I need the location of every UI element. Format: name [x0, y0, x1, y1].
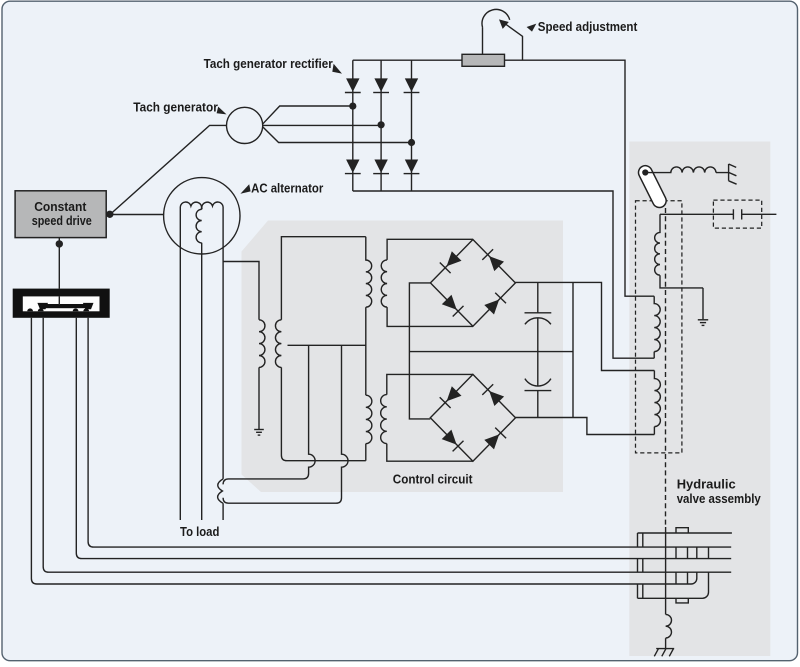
control circuit shaded region [242, 221, 564, 493]
dashed mechanical link line [665, 208, 667, 527]
potentiometer wiper arc [482, 9, 510, 54]
wire bus line 3 [43, 318, 731, 572]
transformer T2 primary winding [366, 395, 372, 443]
wire tach generator phase B [263, 124, 381, 126]
wire alternator phase 2 to load [201, 243, 203, 520]
label AC alternator [251, 180, 323, 195]
rectifier column 1 wire [352, 60, 354, 191]
torque motor frame top line [638, 532, 732, 534]
wire tap drop 2 with crossover hop [223, 345, 348, 503]
flapper lever arm [636, 163, 668, 209]
junction node phase C [408, 139, 415, 146]
lever pivot wire to spring [645, 167, 728, 173]
wire tap drop 1 with crossover hop [223, 345, 315, 484]
label control circuit [393, 471, 473, 486]
brush block armature bar [45, 304, 86, 308]
label pointer tach generator rectifier [332, 64, 342, 74]
wire bridge B1 left to bridge B2 left [409, 283, 430, 419]
bridge B2 diode bottom-left [442, 430, 464, 452]
armature centre line [665, 527, 667, 614]
wire tach rectifier bottom rail down to coil L2 bottom [353, 191, 654, 358]
wire centre rail between bridges [409, 351, 573, 353]
capacitor C2 bottom lead [537, 391, 539, 418]
torque motor bottom line with corner [638, 572, 709, 598]
transformer T1 primary winding [366, 237, 372, 307]
valve coil L2 winding [654, 296, 660, 358]
dashed enclosure of valve solenoids [636, 201, 682, 453]
label pointer tach generator [217, 107, 227, 115]
svg-text:Control circuit: Control circuit [393, 471, 473, 486]
svg-text:Speed adjustment: Speed adjustment [538, 19, 638, 34]
transformer T0 secondary winding [275, 320, 281, 368]
torque motor bottom bump [676, 598, 688, 603]
diode CR5 (bottom row) [373, 160, 389, 174]
wire T1 secondary bottom to bridge B1 [387, 307, 473, 326]
rectifier column 2 wire [380, 60, 382, 191]
brush block left brush [37, 303, 48, 309]
armature coil [666, 614, 672, 638]
transformer T1 secondary winding [381, 260, 387, 307]
transformer T0 primary winding [259, 320, 265, 368]
svg-text:AC alternator: AC alternator [251, 180, 323, 195]
capacitor C1 top lead [537, 282, 539, 312]
chassis ground at armature [654, 649, 674, 657]
svg-text:Tach generator rectifier: Tach generator rectifier [204, 56, 333, 71]
bridge B2 diode bottom-right [484, 428, 506, 450]
capacitor C2 plates [525, 379, 552, 391]
wire T1 primary to T2 primary [365, 307, 367, 395]
svg-text:speed drive: speed drive [32, 213, 92, 228]
wire T0 secondary top to T1 primary (box top) [281, 237, 365, 320]
bridge B1 diode bottom-right [484, 293, 506, 315]
potentiometer wiper arm with arrow [499, 19, 523, 60]
wire T1 secondary top to bridge B1 [387, 239, 473, 260]
brush block inner window [23, 296, 100, 311]
wire coil L1 to ground [702, 288, 704, 319]
wire T0 secondary centre tap [288, 344, 366, 346]
wire bus line 1 (brush to torque motor top) [88, 318, 731, 547]
valve coil L3 winding [654, 371, 660, 435]
bridge rectifier B2 diamond [430, 374, 515, 461]
AC alternator M1 circle [164, 178, 240, 254]
label speed adjustment [538, 19, 638, 34]
bridge B1 diode bottom-left [442, 295, 464, 317]
wire bridge B2 output rail [516, 418, 655, 435]
capacitor C1 to C2 lead [537, 318, 539, 386]
svg-text:Constant: Constant [34, 199, 87, 214]
label tach generator rectifier [204, 56, 333, 71]
wire T0 primary to ground [258, 367, 260, 429]
valve coil L1 winding [655, 214, 703, 288]
label pointer speed adjustment [527, 24, 537, 32]
rectifier column 3 wire [411, 60, 413, 191]
wire T2 primary bottom [365, 444, 367, 461]
wire tach generator phase C [263, 127, 412, 143]
wire armature to ground [665, 638, 667, 648]
spring anchor symbol [729, 164, 737, 184]
brush block outer case [13, 289, 110, 318]
wire constant speed drive to brush block [58, 238, 60, 289]
wire into brush block [58, 296, 60, 305]
ground at coil L1 [698, 320, 708, 326]
label to load [180, 524, 219, 539]
brush block right brush [83, 303, 94, 309]
wire constant speed drive to AC alternator [106, 214, 164, 216]
hydraulic valve assembly shaded region [629, 142, 770, 657]
junction node at constant speed drive output [106, 211, 113, 218]
wire T2 secondary bottom to bridge B2 [387, 444, 473, 462]
brush block contact bumps [27, 308, 89, 311]
wire valve coil L1 through feedback capacitor C3 [660, 213, 776, 215]
torque motor left bracket 2 [638, 559, 643, 573]
svg-text:Hydraulic: Hydraulic [677, 476, 736, 491]
transformer T2 secondary winding [381, 395, 387, 444]
wire T2 secondary top to bridge B2 [387, 374, 473, 394]
svg-text:To load: To load [180, 524, 219, 539]
diode CR6 (bottom row) [404, 160, 420, 174]
junction node below constant speed drive [56, 240, 63, 247]
capacitor C1 plates [525, 313, 552, 325]
bridge B2 diode top-right [482, 384, 504, 406]
wire tach generator to constant speed drive [110, 125, 227, 214]
diode CR2 (top row) [373, 78, 389, 92]
torque motor left bracket 3 [638, 584, 643, 598]
wire T0 secondary bottom to T2 primary bottom [281, 367, 365, 460]
svg-text:Tach generator: Tach generator [133, 100, 218, 115]
label tach generator [133, 100, 218, 115]
potentiometer R1 speed adjustment [462, 54, 505, 66]
wire bus line 4 with hook to torque motor [31, 318, 696, 584]
torque motor winding ticks row 2 [676, 572, 688, 584]
label hydraulic valve assembly [677, 476, 762, 506]
wire bridge B1 output rail to valve coil L3 top [515, 282, 654, 370]
junction node phase B [378, 121, 385, 128]
constant speed drive box [15, 191, 106, 238]
diode CR3 (top row) [404, 78, 420, 92]
diode CR4 (bottom row) [345, 160, 361, 174]
label pointer AC alternator [240, 184, 250, 194]
dashed enclosure of capacitor C3 [713, 200, 761, 228]
tach generator G1 circle [227, 107, 263, 143]
bridge B1 diode top-right [482, 249, 504, 271]
junction node phase A [349, 103, 356, 110]
ground T0 primary [254, 430, 264, 436]
wire load line wiggle [218, 479, 223, 520]
AC alternator stator winding [180, 202, 223, 249]
wire alternator phase 3 tap to transformer T1 primary [223, 262, 259, 320]
wire tach rectifier top rail to potentiometer and down to coil L2 [353, 60, 654, 296]
bridge B1 diode top-left [440, 251, 462, 273]
bridge B2 diode top-left [440, 386, 462, 408]
wire bus line 2 [76, 318, 731, 559]
wire link between output rails [572, 282, 574, 417]
bridge rectifier B1 diamond [430, 240, 515, 327]
wire alternator phase 3 down [222, 247, 224, 479]
torque motor left bracket 1 [638, 533, 643, 547]
svg-text:valve assembly: valve assembly [677, 491, 762, 506]
lever pivot dot [642, 169, 648, 175]
wire alternator phase 1 to load [179, 249, 181, 520]
capacitor C3 plates [733, 209, 741, 219]
torque motor top bump [676, 528, 688, 533]
wire tach generator phase A [263, 106, 353, 124]
torque motor winding ticks row 1 [676, 547, 709, 559]
diode CR1 (top row) [345, 78, 361, 92]
